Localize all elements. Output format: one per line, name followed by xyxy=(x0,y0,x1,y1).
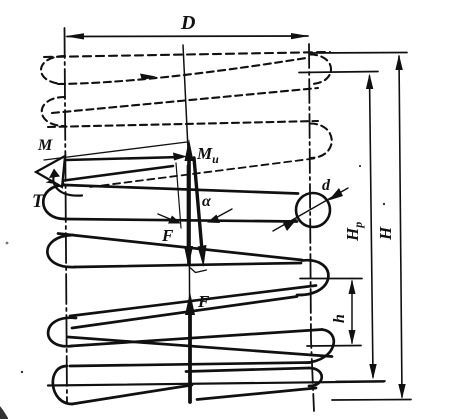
dashed coil turn1 top line xyxy=(44,52,330,57)
coil line from circle to next cap xyxy=(58,234,302,261)
coil back line pair xyxy=(72,297,297,329)
dimension h line xyxy=(351,281,353,343)
dashed left cap 1 xyxy=(41,56,65,84)
dashed right cap 1 xyxy=(310,55,331,85)
ink specks xyxy=(21,371,23,373)
dashed left cap 2 xyxy=(42,97,65,126)
svg-text:F: F xyxy=(197,292,210,311)
coil front line pair xyxy=(71,330,322,347)
dimension Hp line xyxy=(370,76,374,377)
T vector arrowhead xyxy=(46,175,65,186)
svg-text:T: T xyxy=(32,191,45,212)
force component slanted arrow xyxy=(194,158,203,256)
wire cross-section circle d xyxy=(296,193,330,227)
arrowhead H top xyxy=(395,55,402,71)
svg-text:D: D xyxy=(180,12,195,34)
moment M shaft upper xyxy=(66,157,181,160)
bottom cap lower line xyxy=(72,385,192,404)
angle alpha leader left xyxy=(158,214,177,222)
arrowhead h top xyxy=(349,280,356,295)
dashed coil turn2 front line xyxy=(48,121,318,127)
thin parallelogram line B xyxy=(176,163,181,228)
solid right cap xyxy=(297,260,328,295)
svg-text:α: α xyxy=(202,193,212,210)
thin parallelogram line A xyxy=(44,142,187,160)
coil front line xyxy=(75,263,301,267)
dashed right cap 2 xyxy=(310,124,332,159)
extension line Hp bottom xyxy=(336,380,385,383)
solid left cap (first loaded coil) xyxy=(43,185,65,219)
extension line H top xyxy=(311,52,407,55)
angle alpha leader right xyxy=(211,209,232,221)
arrowhead Hp top xyxy=(366,74,373,90)
centerline axis (spring axis) xyxy=(183,45,190,396)
moment M shaft lower xyxy=(64,166,173,181)
arrowhead H bottom xyxy=(398,384,405,399)
svg-text:F: F xyxy=(161,226,174,245)
dashed coil turn2 back line xyxy=(52,88,318,113)
bottom baseline xyxy=(48,382,384,386)
centerline right (dash-dot) xyxy=(309,44,314,411)
centerline left (dash-dot) xyxy=(65,28,68,402)
dimension D line xyxy=(67,35,308,38)
d arrowhead lower xyxy=(283,219,298,232)
dashed coil turn1 bottom line xyxy=(58,58,306,84)
svg-text:d: d xyxy=(322,177,331,194)
torque T curl arrow xyxy=(53,172,82,196)
moment M open arrowhead xyxy=(36,156,65,187)
coil line into cut section xyxy=(65,219,297,222)
parallelogram closing mark xyxy=(191,268,207,273)
bottom coil under line xyxy=(197,388,316,400)
svg-text:H: H xyxy=(376,226,395,241)
solid right cap 2 xyxy=(306,330,334,363)
extension line H bottom xyxy=(332,399,411,402)
d arrowhead upper xyxy=(329,188,344,201)
coil front line to cut section xyxy=(65,185,298,194)
small arrowhead at M right end xyxy=(173,153,187,161)
arrowhead D left xyxy=(65,33,84,39)
arrowhead Hp bottom xyxy=(369,364,376,380)
dashed half turn line xyxy=(90,159,314,188)
coil back line xyxy=(70,363,310,367)
force F bottom arrow xyxy=(188,302,192,402)
solid left cap bottom xyxy=(53,366,72,404)
d leader diagonal xyxy=(273,188,348,231)
force F down arrow (axial component) xyxy=(187,166,191,258)
coil back line xyxy=(70,286,316,317)
coil front line xyxy=(68,337,332,357)
solid left cap 3 xyxy=(48,318,76,347)
svg-text:h: h xyxy=(331,314,348,323)
arrowhead h bottom xyxy=(349,330,356,345)
extension line h top xyxy=(300,278,362,280)
extension line h bottom xyxy=(307,345,361,348)
svg-text:M: M xyxy=(37,137,53,154)
winding direction arrowhead xyxy=(140,74,156,81)
arrowhead D right xyxy=(291,33,309,39)
bottom right end cap xyxy=(309,368,322,386)
bending moment Mu arrow xyxy=(187,152,191,264)
extension line Hp top xyxy=(299,72,378,73)
bottom half coil line xyxy=(186,368,309,372)
dimension H line xyxy=(399,56,402,397)
solid left cap 2 xyxy=(47,235,75,267)
